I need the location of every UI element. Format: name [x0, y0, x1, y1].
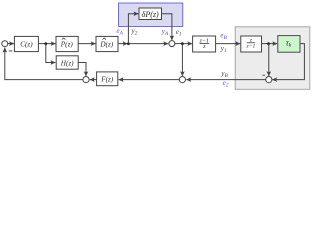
block P-hat(z) — [56, 36, 78, 51]
junction dot J1 — [44, 42, 47, 45]
wire H(z) right and down to S3 — [78, 63, 86, 77]
svg-text:D(z): D(z) — [99, 41, 113, 49]
wire block1 to block2 — [216, 43, 241, 45]
summing junction S2 — [169, 41, 175, 47]
wire J2 to summing junction S2 — [128, 43, 168, 45]
summing junction S4 — [179, 77, 185, 83]
uncertainty highlight box (blue) — [119, 3, 183, 27]
svg-text:eA: eA — [117, 27, 124, 37]
block (z-1)/z — [193, 36, 216, 52]
wire J3 down to S4 — [181, 44, 183, 77]
block tau_k (green) — [278, 36, 300, 53]
svg-text:y1: y1 — [220, 44, 227, 54]
svg-text:C(z): C(z) — [20, 40, 33, 48]
wire S4 to F(z) — [119, 79, 180, 81]
block z/(z-1) — [241, 36, 262, 52]
wire dP(z) down to S2 — [162, 14, 172, 40]
svg-text:z−1: z−1 — [246, 44, 256, 50]
block dP(z) — [139, 8, 162, 20]
feedback wire S3 left and up to S1 — [5, 48, 83, 80]
summing junction S3 — [83, 77, 89, 83]
svg-text:e2: e2 — [223, 79, 229, 89]
svg-text:y2: y2 — [131, 27, 138, 37]
wire J2 up into blue box to dP(z) — [128, 14, 138, 44]
svg-text:yA: yA — [161, 27, 169, 37]
wire S2 to fraction block 1 — [175, 43, 192, 45]
wire block2 to tau block — [262, 43, 278, 45]
gray box (right subsystem) — [235, 27, 310, 90]
summing junction S5 — [266, 77, 272, 83]
wire J1 down to H(z) — [46, 44, 56, 63]
wire P(z) to D(z) — [78, 43, 95, 45]
wire J4 down to S5 — [268, 44, 270, 77]
junction dot J3 — [181, 42, 184, 45]
wire S1 to C(z) — [8, 43, 14, 45]
wire F(z) to S3 — [90, 79, 97, 81]
minus sign at S1 — [9, 50, 13, 52]
minus sign at S5 — [262, 74, 265, 76]
block D-hat(z) — [96, 36, 118, 51]
block F(z) — [97, 72, 118, 86]
wire tau block right and down to S5 — [272, 44, 304, 80]
block C(z) — [14, 36, 38, 51]
junction dot J2 — [127, 42, 130, 45]
svg-text:P(z): P(z) — [60, 41, 74, 49]
svg-text:δP(z): δP(z) — [142, 10, 159, 19]
svg-text:H(z): H(z) — [60, 59, 74, 67]
junction dot J4 — [267, 42, 270, 45]
svg-text:e1: e1 — [176, 28, 182, 38]
svg-text:eB: eB — [220, 32, 227, 42]
wire S5 to S4 — [186, 79, 265, 81]
wire C(z) to P(z) — [38, 43, 55, 45]
summing junction S1 — [2, 41, 8, 47]
svg-text:F(z): F(z) — [100, 75, 114, 83]
block H(z) — [56, 56, 78, 69]
svg-text:yB: yB — [220, 69, 228, 79]
wire D(z) to junction J2 — [118, 43, 128, 45]
